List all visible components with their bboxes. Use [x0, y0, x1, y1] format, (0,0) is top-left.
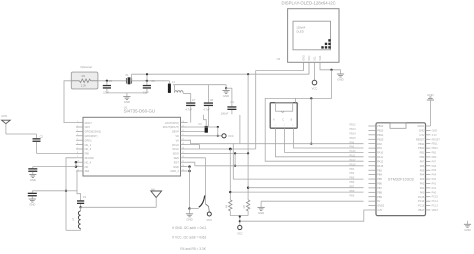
svg-text:GND: GND	[258, 211, 264, 215]
svg-text:DOUT: DOUT	[85, 121, 93, 125]
svg-text:PB5: PB5	[377, 178, 382, 181]
pin U1 left 2 GP3	[76, 125, 90, 129]
svg-text:GND: GND	[30, 178, 36, 182]
resistor R4	[225, 149, 232, 211]
capacitor C1 with ground	[28, 167, 37, 183]
OLED pixel squares	[321, 39, 330, 48]
svg-text:20: 20	[182, 139, 184, 141]
svg-text:PB12: PB12	[377, 125, 384, 128]
svg-text:PA4: PA4	[420, 174, 425, 177]
svg-text:16: 16	[182, 156, 184, 158]
svg-text:PA9: PA9	[350, 146, 355, 149]
svg-text:PB1: PB1	[420, 152, 425, 155]
pin U2 left GND2	[368, 205, 384, 208]
wire R3 right to crystal node	[98, 80, 126, 82]
pin U2 right PA1	[420, 187, 431, 190]
svg-text:GND: GND	[337, 78, 343, 82]
pin U2 left PA10	[368, 152, 383, 155]
power VCC OLED pin3	[312, 62, 318, 90]
svg-text:GND: GND	[419, 130, 425, 133]
svg-text:3.3V: 3.3V	[419, 134, 424, 137]
pin U2 right VBAT	[418, 209, 430, 212]
svg-text:PB5: PB5	[350, 177, 355, 180]
svg-text:AMI: AMI	[85, 169, 90, 173]
svg-text:7: 7	[77, 147, 78, 149]
pin U2 left PB3	[368, 169, 382, 172]
pin U1 left 4 GPO3(INT)	[76, 134, 98, 138]
wire encoder B to STM32	[294, 128, 364, 148]
svg-text:10: 10	[77, 161, 79, 163]
svg-text:2.2K: 2.2K	[81, 84, 87, 88]
svg-text:8: 8	[77, 152, 78, 154]
svg-text:PA11: PA11	[377, 156, 383, 159]
svg-text:LOUT(GPO): LOUT(GPO)	[165, 121, 179, 125]
svg-text:PB9: PB9	[377, 196, 382, 199]
svg-text:RFGND: RFGND	[85, 156, 94, 160]
wire R5 to PB6	[248, 187, 363, 189]
wire to C9	[32, 190, 66, 192]
power VCC pullups	[237, 215, 243, 235]
capacitor C4	[221, 88, 237, 115]
svg-text:GND: GND	[186, 217, 192, 221]
pin U1 right 15 RST	[174, 160, 188, 164]
svg-text:PA8: PA8	[377, 143, 382, 146]
svg-text:PC14: PC14	[432, 200, 439, 203]
pin U1 left 9 RFGND	[76, 156, 94, 160]
node SCLK-R4 junction	[229, 148, 232, 151]
svg-text:PA12: PA12	[350, 159, 357, 162]
svg-text:PA7: PA7	[432, 160, 437, 163]
svg-text:PA15: PA15	[350, 163, 357, 166]
wire SDIO net to riser	[188, 74, 249, 153]
crystal X1	[125, 73, 131, 84]
svg-text:PB3: PB3	[350, 168, 355, 171]
svg-text:PA11: PA11	[350, 155, 356, 158]
svg-text:3.3V: 3.3V	[377, 209, 382, 212]
pin U2 left PB12	[368, 125, 384, 128]
pin U2 right 3.3V	[419, 134, 430, 137]
svg-text:PB15: PB15	[377, 138, 384, 141]
antenna ANT1 (FM)	[1, 115, 10, 134]
pin U1 left 12 AMI	[76, 169, 90, 173]
pin U2 left PB6	[368, 183, 382, 186]
svg-text:PA0: PA0	[432, 191, 437, 194]
ground GND loop-antenna right	[223, 85, 230, 98]
svg-text:PC15: PC15	[432, 196, 439, 199]
svg-text:PA6: PA6	[420, 165, 425, 168]
node SDIO drop to row10	[234, 153, 236, 167]
svg-text:SI4735-D60-GU: SI4735-D60-GU	[124, 109, 155, 114]
wire encoder C to STM32	[285, 128, 364, 152]
pin U2 left PB8	[368, 191, 382, 194]
pin U2 left PA15	[368, 165, 383, 168]
capacitor C6	[143, 79, 156, 95]
node U1 GND pins dots	[188, 165, 191, 208]
pin U1 right 19 RCLK	[172, 143, 187, 147]
wire OLED SDA chain	[265, 69, 363, 162]
svg-text:GND: GND	[464, 228, 470, 232]
wire ROUT-VD link	[188, 126, 219, 137]
svg-text:PB13: PB13	[377, 130, 384, 133]
svg-text:RST: RST	[174, 160, 180, 164]
inductor L3	[72, 207, 81, 230]
wire AM node to AMI vertical	[66, 190, 77, 192]
svg-text:RESET: RESET	[432, 138, 441, 141]
svg-text:R3: R3	[82, 74, 86, 78]
svg-text:VA: VA	[176, 138, 180, 142]
switch SW1 I2C address	[188, 196, 208, 210]
svg-text:VCC: VCC	[206, 218, 212, 222]
svg-text:VCC: VCC	[237, 232, 243, 236]
svg-text:PB15: PB15	[350, 137, 357, 140]
node U1 NC_4/NC junction dots	[75, 161, 78, 168]
svg-text:PA7: PA7	[420, 160, 425, 163]
svg-text:15: 15	[182, 161, 184, 163]
pin U1 right 20 VA	[176, 138, 188, 142]
svg-text:NC_4: NC_4	[85, 160, 92, 164]
pin U1 left 6 NC_1	[76, 143, 92, 147]
ground GND switch left	[186, 209, 193, 222]
svg-text:5V: 5V	[377, 200, 380, 203]
pin U2 left PA9	[368, 147, 382, 150]
svg-text:PA8: PA8	[350, 141, 355, 144]
ground GND bottom-right	[464, 221, 471, 232]
net labels U2 left	[350, 124, 357, 198]
svg-text:RESET: RESET	[416, 138, 425, 141]
svg-text:4.7uF: 4.7uF	[203, 107, 210, 111]
svg-text:FMI: FMI	[85, 152, 90, 156]
wire crystal bus upper (to OLED pin2)	[132, 73, 310, 81]
svg-text:2: 2	[77, 125, 78, 127]
svg-text:PA3: PA3	[420, 178, 425, 181]
pin U2 left PA8	[368, 143, 382, 146]
svg-text:PB7: PB7	[350, 185, 355, 188]
svg-text:PB8: PB8	[350, 190, 355, 193]
svg-text:GP3: GP3	[85, 125, 91, 129]
wire AM antenna to node	[81, 206, 157, 208]
transistor SW2 rotary encoder body	[270, 103, 297, 129]
svg-text:C4: C4	[230, 100, 234, 104]
svg-text:100nF: 100nF	[221, 111, 229, 115]
pin U2 right GND	[419, 130, 431, 133]
svg-text:DISPLAY-OLED-128x64-I2C: DISPLAY-OLED-128x64-I2C	[282, 1, 336, 6]
svg-text:ROUT(DOUT): ROUT(DOUT)	[163, 125, 179, 129]
net labels U2 right	[432, 129, 441, 212]
inductor L1 ferrite bar	[167, 80, 176, 93]
svg-text:PA10: PA10	[377, 152, 384, 155]
svg-text:GPO1: GPO1	[85, 138, 93, 142]
pin U2 right PA3	[420, 178, 431, 181]
wire SCLK net with riser to OLED pin1	[188, 71, 304, 149]
pin U1 right 22 DBYP	[172, 130, 188, 134]
svg-text:X1: X1	[125, 73, 129, 77]
svg-text:3.3V: 3.3V	[432, 134, 437, 137]
svg-text:C: C	[282, 119, 284, 122]
svg-text:PB7: PB7	[377, 187, 382, 190]
wire loop antenna top rail	[174, 84, 226, 86]
wire C4 riser stub	[239, 115, 241, 144]
pin U1 right 24 LOUT(GPO)	[165, 121, 188, 125]
pin U2 left PB9	[368, 196, 382, 199]
wire crystal right segment	[132, 80, 167, 82]
svg-text:PC13: PC13	[432, 205, 439, 208]
wire row10 long	[195, 165, 364, 167]
pin U1 left 8 FMI	[76, 152, 89, 156]
wire C5-C6 bottoms join	[107, 92, 147, 94]
pin U2 right PA7	[420, 160, 431, 163]
svg-text:VCC: VCC	[308, 55, 311, 60]
power VCC switch right	[206, 206, 212, 222]
svg-text:PA4: PA4	[432, 174, 437, 177]
wire RFGND to left bus	[66, 158, 76, 231]
op-amp U1 SI4735-D60-GU body	[83, 105, 181, 176]
pin U2 right PB11	[418, 143, 430, 146]
svg-text:RCLK: RCLK	[172, 143, 179, 147]
svg-text:3: 3	[77, 130, 78, 132]
capacitor C9 with ground	[28, 191, 37, 207]
pin U2 left PA11	[368, 156, 383, 159]
wire L3 bottom return	[66, 229, 81, 231]
svg-text:PC13: PC13	[418, 205, 425, 208]
svg-text:4.7uF: 4.7uF	[185, 107, 192, 111]
wire R4 to PB7	[230, 191, 363, 193]
OLED pin labels	[277, 55, 323, 61]
svg-text:PA15: PA15	[377, 165, 384, 168]
svg-text:PA12: PA12	[377, 160, 384, 163]
svg-text:PB8: PB8	[377, 191, 382, 194]
capacitor C2	[33, 134, 44, 153]
svg-text:GND: GND	[173, 165, 179, 169]
pin U1 left 7 NC_3	[76, 147, 92, 151]
pin U1 right 21 VD	[175, 134, 187, 138]
svg-text:GPO3(INT): GPO3(INT)	[85, 134, 98, 138]
svg-text:VCC: VCC	[228, 134, 234, 138]
svg-text:PA1: PA1	[432, 187, 437, 190]
svg-text:PA5: PA5	[420, 169, 425, 172]
svg-text:VBAT: VBAT	[418, 209, 425, 212]
wire RCLK jog	[188, 145, 200, 149]
svg-text:PA0: PA0	[420, 191, 425, 194]
node SDIO junction dots	[234, 152, 249, 154]
pin U2 right GND1	[417, 125, 430, 128]
pin U2 right RESET	[416, 138, 430, 141]
svg-text:PA3: PA3	[432, 178, 437, 181]
node AM bus junction	[65, 190, 67, 192]
pin U1 left 11 NC	[76, 165, 89, 169]
svg-text:R4 and R5 = 3.3K: R4 and R5 = 3.3K	[180, 247, 206, 251]
svg-text:19: 19	[182, 143, 184, 145]
svg-text:PB6: PB6	[350, 181, 355, 184]
svg-text:SDA: SDA	[319, 55, 322, 60]
pin U2 left PA12	[368, 160, 383, 163]
pin U1 right 17 SDIO	[173, 152, 188, 156]
svg-text:C6: C6	[151, 79, 155, 83]
svg-text:PA6: PA6	[432, 165, 437, 168]
op-amp U3 OLED display	[282, 1, 340, 63]
wire SEN to switch	[188, 158, 206, 204]
pin U2 left PB7	[368, 187, 382, 190]
svg-text:PB11: PB11	[418, 143, 425, 146]
svg-text:PB14: PB14	[377, 134, 384, 137]
pin U2 right PA2	[420, 183, 431, 186]
wire antenna to C2	[6, 133, 37, 135]
svg-text:If VCC, I2C addr = 0x63: If VCC, I2C addr = 0x63	[172, 236, 206, 240]
pin encoder top stub	[296, 98, 300, 106]
svg-text:18: 18	[182, 147, 184, 149]
ground GND top-right of STM32	[427, 93, 434, 126]
svg-text:NC_1: NC_1	[85, 143, 92, 147]
svg-text:PB10: PB10	[432, 147, 439, 150]
pin U2 right PA6	[420, 165, 431, 168]
svg-text:17: 17	[182, 152, 184, 154]
svg-text:SEN: SEN	[174, 156, 179, 160]
svg-text:SDIO: SDIO	[173, 152, 179, 156]
svg-text:PA5: PA5	[432, 169, 437, 172]
op-amp U2 STM32F103C8 body	[376, 123, 426, 216]
ground GND right of OLED	[337, 73, 344, 75]
svg-text:4: 4	[77, 134, 78, 136]
svg-text:PB9: PB9	[350, 194, 355, 197]
svg-text:14: 14	[182, 165, 184, 167]
svg-text:NC: NC	[85, 165, 89, 169]
node C10 bottom junction	[79, 206, 81, 208]
svg-text:GND: GND	[432, 129, 438, 132]
wire AMI pin down	[77, 171, 81, 200]
pin U2 right PA5	[420, 169, 431, 172]
capacitor C3 bypass	[188, 115, 208, 133]
svg-text:13: 13	[182, 169, 184, 171]
svg-text:PA9: PA9	[377, 147, 382, 150]
ground GND below crystal caps	[123, 93, 130, 104]
node crystal-left junction	[106, 80, 108, 82]
pin U2 left 5V	[368, 200, 380, 203]
pin U2 right PC15	[418, 196, 430, 199]
svg-text:C8: C8	[210, 98, 214, 102]
svg-text:6: 6	[77, 143, 78, 145]
ground GND mid rail	[258, 201, 265, 215]
svg-text:.22uF: .22uF	[102, 90, 109, 94]
svg-text:PB12: PB12	[350, 124, 357, 127]
pin U2 right PB0	[420, 156, 431, 159]
pin U2 right PC14	[418, 200, 430, 203]
wire I2C riser to row5	[310, 98, 312, 144]
svg-text:PB0: PB0	[420, 156, 425, 159]
svg-text:PB4: PB4	[377, 174, 382, 177]
wire SCL branch down to PB6 row	[233, 144, 363, 179]
wire GND rail to STM32	[261, 200, 363, 202]
pin U2 left PB14	[368, 134, 384, 137]
svg-text:VD: VD	[175, 134, 179, 138]
wire pullup bottoms join	[229, 211, 231, 216]
capacitor C8	[203, 85, 213, 127]
svg-text:PB4: PB4	[350, 172, 355, 175]
wire SCL bus to STM32	[188, 140, 364, 144]
svg-text:PC14: PC14	[418, 200, 425, 203]
svg-text:PB10: PB10	[418, 147, 425, 150]
svg-text:C2: C2	[40, 134, 44, 138]
svg-text:GND1: GND1	[417, 125, 425, 128]
svg-text:C5: C5	[109, 79, 113, 83]
wire R3 left to U1 pin 1	[64, 81, 76, 123]
svg-text:NC_3: NC_3	[85, 147, 92, 151]
pin U2 left PB13	[368, 130, 384, 133]
svg-text:PB0: PB0	[432, 156, 437, 159]
svg-text:GPO3(I2S/A2): GPO3(I2S/A2)	[85, 130, 102, 134]
pin U2 right PC13	[418, 205, 430, 208]
svg-text:22: 22	[182, 130, 184, 132]
pin U2 right PB10	[418, 147, 430, 150]
pin U1 left 5 GPO1	[76, 138, 92, 142]
svg-text:PA2: PA2	[420, 183, 425, 186]
svg-text:ANT1: ANT1	[1, 115, 8, 118]
resistor R3 (optional)	[71, 65, 98, 89]
svg-text:OLED: OLED	[296, 29, 304, 33]
pin U2 left PB5	[368, 178, 382, 181]
inductor L1 coil	[173, 85, 191, 94]
svg-text:PA10: PA10	[350, 150, 357, 153]
pin U2 right PA4	[420, 174, 431, 177]
svg-text:DBYP: DBYP	[172, 130, 179, 134]
svg-text:C7: C7	[192, 98, 196, 102]
svg-text:9: 9	[77, 156, 78, 158]
svg-text:GND: GND	[223, 94, 229, 98]
wire OLED pin4 to GND	[320, 62, 341, 74]
svg-text:VCC: VCC	[312, 87, 318, 91]
pin U2 right PB1	[420, 152, 431, 155]
svg-text:U3: U3	[277, 57, 281, 61]
pin U1 left 3 GPO3(I2S/A2)	[76, 130, 101, 134]
wire NC pins to C1	[33, 166, 76, 168]
pin U1 right 23 ROUT(DOUT)	[163, 125, 188, 129]
svg-text:23: 23	[182, 125, 184, 127]
svg-text:22pF: 22pF	[143, 90, 149, 94]
svg-text:11: 11	[77, 165, 79, 167]
node crystal-right junction	[146, 80, 148, 82]
svg-text:PB14: PB14	[350, 132, 357, 135]
svg-text:SCL: SCL	[314, 55, 317, 60]
capacitor C10	[77, 196, 87, 207]
pin U2 left PB15	[368, 138, 384, 141]
svg-text:5: 5	[77, 139, 78, 141]
svg-text:PB6: PB6	[377, 183, 382, 186]
pin U1 right 13 GND_2	[170, 169, 187, 173]
svg-text:21: 21	[182, 134, 184, 136]
pin U1 right 14 GND	[173, 165, 187, 169]
resistor R5	[243, 153, 250, 211]
svg-text:GND: GND	[29, 203, 35, 207]
capacitor C5	[102, 79, 112, 95]
svg-text:PB1: PB1	[432, 152, 437, 155]
svg-text:GND2: GND2	[377, 205, 385, 208]
svg-text:GND_2: GND_2	[170, 169, 179, 173]
wire C2 to FMI pin	[37, 152, 76, 154]
pin OLED pin1 stub	[303, 62, 305, 70]
svg-text:VBAT: VBAT	[432, 209, 439, 212]
wire RST jog to row10 bus	[188, 162, 195, 166]
pin U1 left 1 DOUT	[76, 121, 92, 125]
pin U1 left 10 NC_4	[76, 160, 92, 164]
svg-text:GND: GND	[124, 100, 130, 104]
svg-text:STM32F103C8: STM32F103C8	[388, 177, 414, 181]
pin U1 right 18 SCLK	[172, 147, 187, 151]
svg-text:If GND, I2C addr = 0x11: If GND, I2C addr = 0x11	[172, 226, 206, 230]
svg-text:PB13: PB13	[350, 128, 357, 131]
svg-text:SCLK: SCLK	[172, 147, 179, 151]
svg-text:PA1: PA1	[420, 187, 425, 190]
pin U2 left PB4	[368, 174, 382, 177]
pin U2 right PA0	[420, 191, 431, 194]
svg-text:GND: GND	[303, 55, 306, 61]
